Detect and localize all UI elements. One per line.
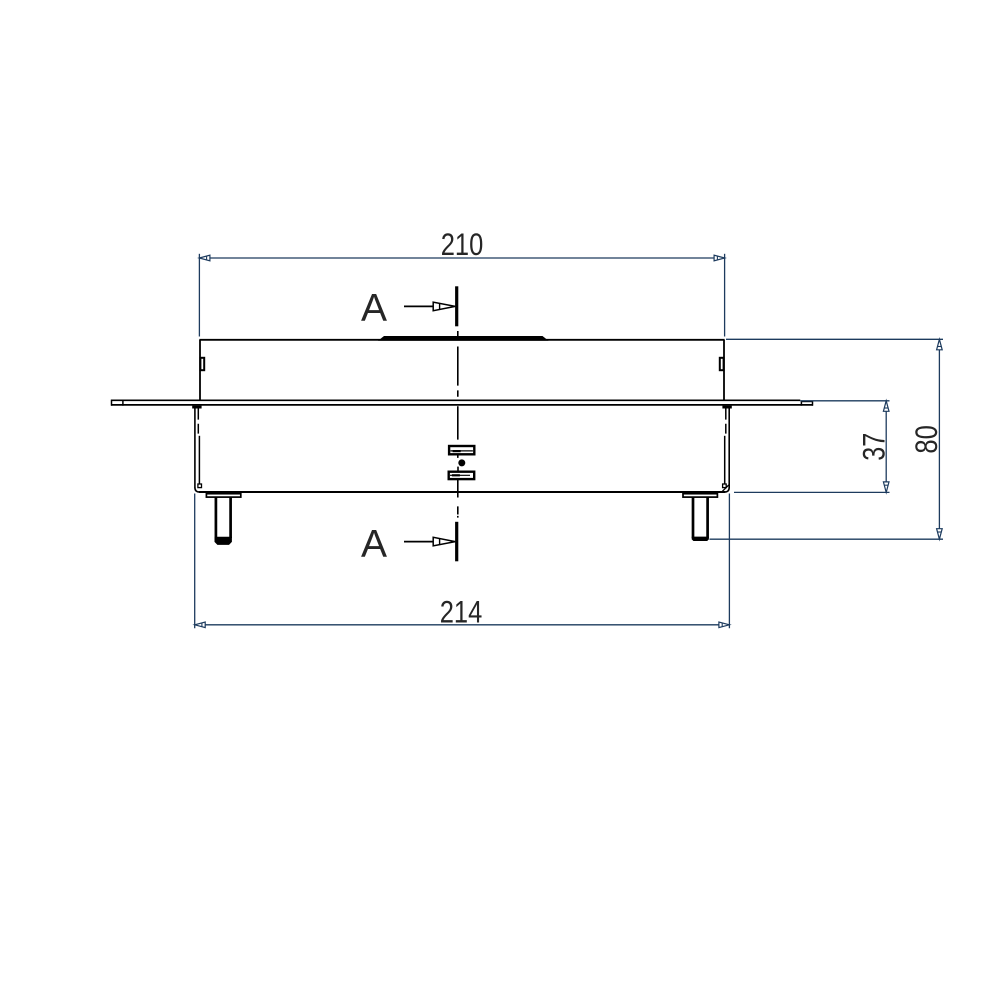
flange right end top segment bbox=[801, 401, 813, 403]
centerline dash-dot bbox=[457, 331, 459, 518]
dim 37 bottom arrow bbox=[883, 482, 889, 493]
left clip tab bbox=[200, 358, 204, 370]
dim 37 bottom extension line bbox=[734, 491, 890, 493]
dim 214 right arrow bbox=[719, 622, 730, 628]
upper body right edge bbox=[723, 340, 725, 401]
lower body left inner wall solid bbox=[198, 436, 200, 487]
right leg post bbox=[692, 497, 695, 538]
dim 214 left arrow bbox=[195, 622, 206, 628]
dim 214 right extension line bbox=[728, 494, 730, 629]
bottom-right corner diagonal bbox=[722, 485, 728, 491]
dim 80 line bbox=[938, 339, 940, 539]
bottom-left corner notch bbox=[198, 484, 202, 488]
center tick under dot bbox=[457, 467, 459, 472]
lower body left outer wall bbox=[194, 406, 196, 488]
right hat block under flange bbox=[722, 406, 731, 409]
dim 214 line bbox=[195, 624, 730, 626]
dim 210 left extension line bbox=[198, 254, 200, 337]
upper body top edge bbox=[199, 339, 724, 341]
left leg post bbox=[215, 497, 218, 538]
right clip tab bbox=[720, 358, 724, 370]
right leg bracket bbox=[683, 494, 717, 497]
dim 210 right arrow bbox=[714, 255, 725, 261]
center latch rect 1 tick bbox=[453, 450, 461, 452]
section line bottom bbox=[455, 522, 458, 562]
flange top line bbox=[111, 399, 800, 401]
center dot bbox=[458, 459, 465, 466]
section line top bbox=[455, 286, 458, 326]
lower body right outer wall bbox=[728, 406, 730, 488]
flange left cap bbox=[111, 400, 113, 406]
left leg bracket bbox=[206, 494, 240, 497]
center latch rect 2 bbox=[449, 472, 475, 479]
svg-text:37: 37 bbox=[856, 433, 892, 461]
lid bar on top bbox=[378, 336, 549, 341]
lower body right inner wall solid bbox=[724, 436, 726, 487]
dim 210 right extension line bbox=[724, 254, 726, 337]
flange bottom line bbox=[111, 404, 813, 406]
dim 80 top extension line bbox=[726, 338, 943, 340]
lower body right corner arc bbox=[725, 488, 730, 493]
dim 80 top arrow bbox=[937, 339, 943, 350]
lower body left corner arc bbox=[195, 488, 200, 493]
bottom-right corner notch bbox=[723, 484, 727, 488]
section arrow bottom head bbox=[433, 537, 455, 546]
lower body bottom edge bbox=[199, 491, 725, 493]
center latch rect 2 mid line bbox=[450, 474, 470, 476]
left leg foot bbox=[215, 537, 232, 545]
svg-text:A: A bbox=[361, 287, 387, 330]
left hat block under flange bbox=[192, 406, 201, 409]
lower body left inner dashed wall bbox=[197, 406, 199, 433]
dim 214 left extension line bbox=[194, 494, 196, 629]
right leg foot bbox=[692, 537, 709, 541]
section arrow bottom tail bbox=[404, 541, 435, 543]
dim 80 bottom arrow bbox=[937, 529, 943, 540]
center latch rect 1 mid line bbox=[451, 450, 473, 452]
dim 210 line bbox=[199, 257, 724, 259]
svg-text:214: 214 bbox=[440, 594, 483, 630]
center latch rect 2 tick bbox=[452, 474, 460, 476]
center latch rect 1 bbox=[449, 446, 474, 454]
lower body right inner dashed wall bbox=[725, 406, 727, 433]
dim 210 left arrow bbox=[199, 255, 210, 261]
section arrow top tail bbox=[404, 305, 435, 307]
dim 37 top arrow bbox=[883, 401, 889, 412]
flange right tick bbox=[800, 402, 802, 406]
svg-text:210: 210 bbox=[441, 226, 484, 262]
upper body left edge bbox=[199, 340, 201, 401]
dim 37 line bbox=[885, 401, 887, 493]
dim 37 top extension line bbox=[800, 400, 889, 402]
flange left tick bbox=[122, 400, 124, 405]
svg-text:A: A bbox=[361, 523, 387, 566]
svg-text:80: 80 bbox=[908, 425, 944, 454]
section arrow top head bbox=[433, 302, 455, 311]
dim 80 bottom extension line bbox=[710, 538, 944, 540]
flange right cap bbox=[812, 402, 814, 406]
